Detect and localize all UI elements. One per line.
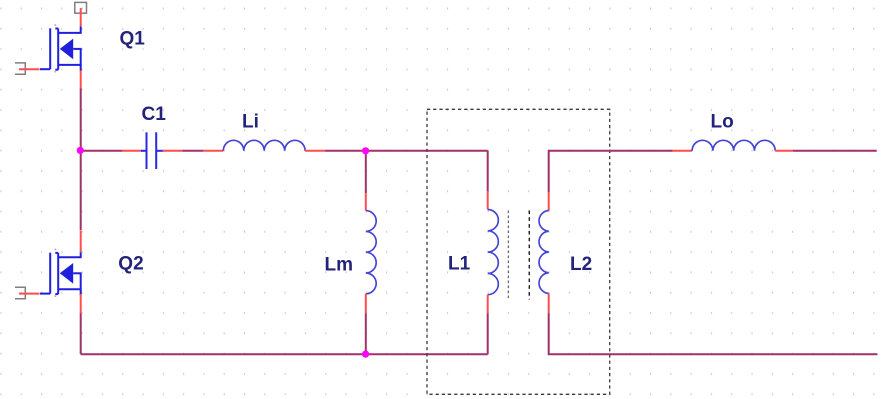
inductor Lo bbox=[692, 140, 775, 151]
wire (red stub: Lo left pin) bbox=[673, 150, 692, 152]
wire (red stub: L2 bottom pin) bbox=[548, 294, 550, 314]
svg-text:Q2: Q2 bbox=[118, 254, 143, 275]
wire (L2 top corner to output) bbox=[549, 151, 673, 193]
wire (L2 bottom corner, bottom-right rail) bbox=[549, 313, 878, 354]
wire (red stub: C1 left pin) bbox=[122, 150, 142, 152]
wire (C1 to Li) bbox=[182, 150, 203, 152]
wire (red: gate port to Q1 gate) bbox=[19, 68, 40, 70]
wire (red stub: Q2 source) bbox=[80, 294, 82, 314]
wire (red: gate port to Q2 gate) bbox=[19, 293, 40, 295]
pin markers Q1 bbox=[55, 24, 57, 72]
inductor L2 (transformer secondary) bbox=[539, 211, 549, 294]
transistor Q2 (NMOS) bbox=[40, 252, 82, 295]
wire (red stub: Lm bottom pin) bbox=[365, 294, 367, 314]
wire (junction down to Q2 drain) bbox=[80, 151, 82, 230]
transistor Q1 (NMOS) bbox=[40, 27, 82, 71]
port (gate connector of Q1) bbox=[15, 63, 25, 74]
wire (red stub: L1 bottom pin) bbox=[487, 295, 489, 314]
wire (Lm bottom to bottom rail) bbox=[365, 313, 367, 354]
wire (red stub: C1 right pin) bbox=[163, 150, 183, 152]
wire (Lo to right edge) bbox=[793, 150, 877, 152]
wire (red stub: Q2 drain) bbox=[80, 230, 82, 252]
inductor L1 (transformer primary) bbox=[488, 210, 499, 295]
wire (Q1 source down to junction) bbox=[80, 88, 82, 151]
wire (bottom rail, left section) bbox=[81, 353, 488, 355]
wire (red stub: Li right pin) bbox=[305, 150, 325, 152]
svg-text:C1: C1 bbox=[142, 104, 167, 125]
junction node (half-bridge midpoint) bbox=[77, 147, 84, 154]
wire (red stub: Li left pin) bbox=[203, 150, 223, 152]
wire (red stub: L1 top pin) bbox=[487, 191, 489, 209]
wire (red stub: port to Q1 drain) bbox=[80, 8, 82, 27]
port (gate connector of Q2) bbox=[15, 287, 25, 298]
wire (red stub: Lo right pin) bbox=[775, 150, 793, 152]
wire (red stub: Lm top pin) bbox=[365, 193, 367, 211]
capacitor C1 bbox=[141, 132, 163, 169]
inductor Lm bbox=[366, 211, 376, 294]
svg-text:Q1: Q1 bbox=[120, 29, 146, 50]
wire (Q2 source down to bottom rail) bbox=[80, 314, 82, 355]
wire (junction down to Lm) bbox=[365, 151, 367, 193]
inductor Li bbox=[223, 140, 305, 151]
port (off-page connector, Q1 drain) bbox=[75, 2, 87, 13]
pin markers Q2 bbox=[55, 249, 57, 297]
svg-text:Lm: Lm bbox=[325, 254, 354, 275]
wire (red stub: Q1 source) bbox=[80, 71, 82, 89]
junction node (bottom rail at Lm) bbox=[362, 351, 369, 358]
svg-text:L1: L1 bbox=[448, 254, 471, 275]
transformer core dashed line (right) bbox=[528, 211, 530, 300]
transformer core dashed line (left) bbox=[507, 211, 509, 300]
transformer dashed enclosure bbox=[427, 109, 610, 394]
wire (junction to C1) bbox=[81, 150, 122, 152]
svg-text:Lo: Lo bbox=[711, 111, 734, 132]
wire (down into L1) bbox=[487, 151, 489, 192]
junction node (Lm top) bbox=[362, 147, 369, 154]
wire (Li to transformer, through junction) bbox=[325, 150, 487, 152]
svg-text:L2: L2 bbox=[570, 254, 592, 275]
wire (L1 bottom to bottom rail) bbox=[487, 313, 489, 354]
wire (red stub: L2 top pin) bbox=[548, 192, 550, 210]
svg-text:Li: Li bbox=[242, 111, 259, 132]
